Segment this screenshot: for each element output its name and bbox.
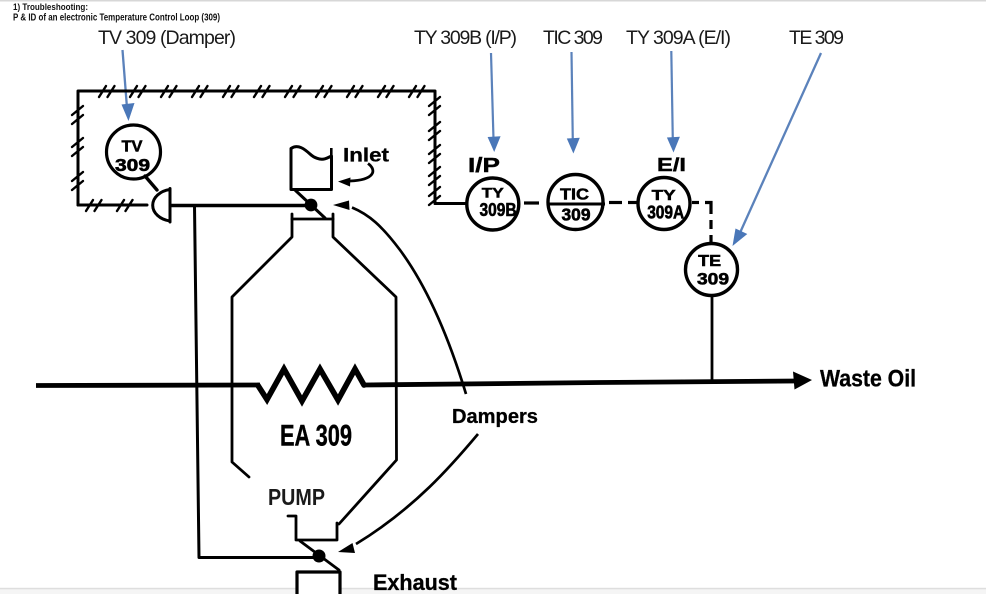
furnace EA309 bottom neck bbox=[288, 516, 337, 540]
svg-text:P & ID of an electronic Tempe: P & ID of an electronic Temperature Cont… bbox=[13, 13, 220, 24]
waste oil arrowhead bbox=[793, 372, 812, 390]
control line from actuator to inlet damper bbox=[171, 204, 306, 207]
instrument bubble TIC 309 bbox=[547, 175, 606, 230]
blue callout arrow to TIC 309 bbox=[567, 52, 580, 154]
svg-text:TY 309A (E/I): TY 309A (E/I) bbox=[626, 27, 731, 49]
svg-text:TE 309: TE 309 bbox=[789, 27, 844, 49]
inlet damper pivot (dot junction) bbox=[305, 199, 318, 212]
instrument bubble TV 309 bbox=[107, 125, 161, 179]
furnace EA309 right wall bbox=[333, 219, 397, 524]
waste oil line bbox=[36, 381, 796, 386]
svg-text:TIC: TIC bbox=[560, 187, 589, 204]
top horizontal hashes bbox=[99, 86, 115, 97]
svg-text:TY: TY bbox=[482, 185, 505, 201]
svg-text:Dampers: Dampers bbox=[452, 406, 538, 428]
blue callout arrow to TE 309 bbox=[733, 53, 822, 246]
svg-text:309B: 309B bbox=[480, 200, 517, 220]
dashed electric signal TIC309 - TY309A bbox=[609, 201, 641, 204]
hash marks on pneumatic line bbox=[72, 86, 440, 211]
inlet damper blade (slash) bbox=[296, 191, 326, 219]
svg-text:E/I: E/I bbox=[657, 154, 686, 175]
blue callout arrow to TV 309 bbox=[122, 50, 135, 121]
pneumatic signal line: bottom segment to actuator bbox=[78, 204, 147, 207]
bottom segment hashes bbox=[86, 200, 102, 211]
furnace EA309 top neck flange bbox=[292, 214, 333, 219]
svg-text:Exhaust: Exhaust bbox=[373, 570, 458, 594]
dashed electric signal TY309B - TIC309 bbox=[524, 201, 539, 204]
instrument bubble TY 309B bbox=[467, 178, 519, 230]
curve from Dampers to exhaust damper bbox=[338, 434, 478, 553]
exhaust damper pivot (dot junction) bbox=[313, 550, 326, 563]
leader TV to actuator bbox=[145, 176, 157, 190]
svg-text:TV: TV bbox=[122, 139, 143, 156]
blue callout arrow to TY 309A bbox=[667, 51, 680, 153]
svg-text:TIC 309: TIC 309 bbox=[543, 27, 603, 49]
svg-text:309: 309 bbox=[562, 205, 591, 225]
svg-text:TE: TE bbox=[698, 253, 721, 270]
instrument bubble TE 309 bbox=[686, 244, 738, 296]
svg-text:Inlet: Inlet bbox=[343, 145, 390, 167]
inlet duct right-edge tick bbox=[330, 148, 333, 157]
svg-text:I/P: I/P bbox=[468, 155, 500, 177]
svg-text:PUMP: PUMP bbox=[268, 484, 325, 510]
svg-text:EA 309: EA 309 bbox=[280, 420, 352, 453]
top window edge line bbox=[0, 0, 986, 2]
inlet pointer arrow bbox=[338, 164, 373, 187]
left vertical hashes bbox=[72, 106, 83, 124]
control line down-left side to exhaust damper bbox=[195, 206, 317, 558]
instrument bubble TY 309A bbox=[638, 178, 690, 230]
inlet duct bbox=[291, 147, 332, 190]
svg-text:309A: 309A bbox=[647, 203, 684, 223]
svg-text:1) Troubleshooting:: 1) Troubleshooting: bbox=[13, 2, 88, 13]
TE309 stem to waste oil line bbox=[711, 295, 714, 382]
blue callout arrow to TY 309B bbox=[488, 53, 501, 152]
furnace EA309 left wall bbox=[232, 219, 292, 477]
svg-text:TY 309B (I/P): TY 309B (I/P) bbox=[414, 27, 517, 49]
svg-text:Waste Oil: Waste Oil bbox=[820, 366, 916, 393]
svg-text:309: 309 bbox=[115, 155, 150, 175]
damper actuator (half-dome) bbox=[153, 189, 170, 223]
right vertical hashes bbox=[429, 97, 440, 115]
curve from Dampers to inlet damper bbox=[333, 201, 466, 395]
wire from pneumatic corner to TY 309B bbox=[435, 202, 467, 205]
exhaust duct bbox=[297, 572, 340, 594]
bottom scrollbar strip bbox=[0, 588, 986, 590]
svg-text:309: 309 bbox=[697, 270, 729, 289]
heater zigzag EA 309 bbox=[258, 369, 364, 401]
exhaust damper blade (slash) bbox=[300, 541, 339, 570]
svg-text:TV 309 (Damper): TV 309 (Damper) bbox=[98, 27, 236, 49]
pneumatic signal line: left vertical + top + right vertical bbox=[78, 91, 435, 205]
dashed electric signal TY309A - TE309 (corner) bbox=[692, 203, 711, 243]
